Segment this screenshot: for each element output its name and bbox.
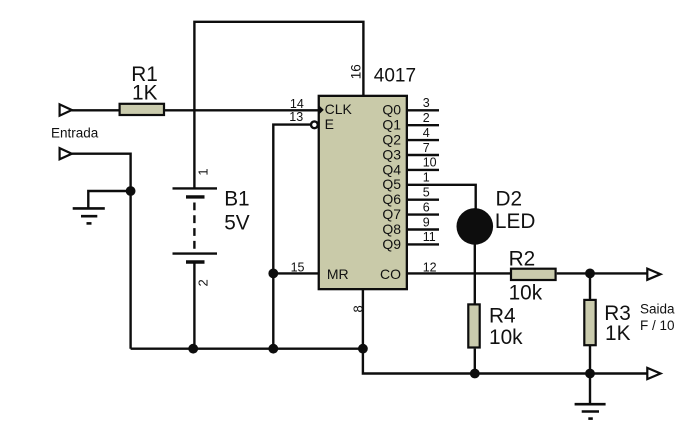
wire ground branch xyxy=(88,191,130,208)
svg-text:6: 6 xyxy=(423,200,430,214)
svg-text:13: 13 xyxy=(289,110,303,124)
pin Q2 stub xyxy=(382,126,439,148)
wire pin 8 to ground bus xyxy=(362,289,364,349)
resistor R4 xyxy=(468,304,479,347)
op IC U1 4017 body xyxy=(319,96,407,289)
resistor R2 xyxy=(511,269,556,280)
wire V+ rail from battery top to pin 16 xyxy=(194,22,363,189)
svg-text:2: 2 xyxy=(423,111,430,125)
node R4/bus junction xyxy=(470,369,480,379)
node MR junction xyxy=(268,269,278,279)
output connector J4 xyxy=(647,368,660,379)
pin Q1 stub xyxy=(382,111,439,133)
svg-text:MR: MR xyxy=(327,266,349,282)
svg-text:D2: D2 xyxy=(496,187,523,210)
svg-text:8: 8 xyxy=(350,305,365,312)
output connector J3 xyxy=(647,269,660,280)
svg-text:1K: 1K xyxy=(132,81,158,104)
ground (output) xyxy=(575,404,606,418)
node battery/bus junction xyxy=(188,344,198,354)
svg-text:14: 14 xyxy=(290,97,304,111)
svg-text:3: 3 xyxy=(423,96,430,110)
svg-text:Q7: Q7 xyxy=(382,206,401,222)
svg-text:1K: 1K xyxy=(605,322,631,345)
svg-text:7: 7 xyxy=(423,141,430,155)
svg-text:4017: 4017 xyxy=(374,65,416,86)
svg-text:Saida: Saida xyxy=(640,301,675,316)
svg-text:F / 10: F / 10 xyxy=(640,318,675,333)
resistor R3 xyxy=(584,300,595,345)
battery B1 xyxy=(173,188,218,262)
svg-text:Q5: Q5 xyxy=(382,176,401,192)
pin Q5 stub + wire to LED xyxy=(382,171,475,209)
svg-text:B1: B1 xyxy=(224,187,249,210)
wire ground bus right xyxy=(363,349,648,374)
svg-text:10: 10 xyxy=(423,156,437,170)
pin Q0 stub xyxy=(382,96,439,118)
svg-text:R2: R2 xyxy=(509,248,536,271)
svg-text:4: 4 xyxy=(423,126,430,140)
svg-text:R4: R4 xyxy=(489,305,516,328)
wire LED cathode to R4 xyxy=(474,244,476,304)
svg-text:16: 16 xyxy=(349,64,364,79)
wire R2 to output J3 xyxy=(557,272,648,274)
pin Q9 stub xyxy=(382,230,439,252)
input connector J1 (top) xyxy=(60,104,72,115)
ground (input) xyxy=(73,208,105,223)
svg-text:CO: CO xyxy=(380,266,401,282)
wire ground bus left xyxy=(131,348,363,350)
svg-text:Q4: Q4 xyxy=(382,161,401,177)
svg-text:9: 9 xyxy=(423,215,430,229)
wire R1 to CLK pin 14 xyxy=(165,109,318,111)
LED D2 xyxy=(457,208,494,245)
svg-text:11: 11 xyxy=(423,230,436,244)
svg-text:10k: 10k xyxy=(509,281,543,304)
wire J1 to R1 xyxy=(72,109,120,111)
wire J2 down to ground bus xyxy=(72,154,131,349)
pin Q4 stub xyxy=(382,156,439,178)
svg-text:Q8: Q8 xyxy=(382,221,401,237)
svg-text:LED: LED xyxy=(495,210,535,233)
pin Q8 stub xyxy=(382,215,439,237)
svg-text:CLK: CLK xyxy=(325,101,353,117)
svg-text:1: 1 xyxy=(195,168,210,175)
svg-text:Q2: Q2 xyxy=(382,132,401,148)
wire R3 bottom to ground bus xyxy=(589,346,591,374)
pin Q6 stub xyxy=(382,186,439,208)
svg-text:15: 15 xyxy=(291,261,305,275)
node R2/R3 junction xyxy=(585,269,595,279)
pin Q7 stub xyxy=(382,200,439,222)
svg-text:Q3: Q3 xyxy=(382,146,401,162)
node junction J2/ground xyxy=(126,186,136,196)
wire R3 top to CO net xyxy=(589,273,591,299)
node MR-net/bus junction xyxy=(268,344,278,354)
svg-text:10k: 10k xyxy=(489,326,523,349)
svg-text:E: E xyxy=(325,116,334,132)
svg-text:1: 1 xyxy=(423,171,430,185)
wire CO to R2 xyxy=(408,272,510,274)
svg-text:Q0: Q0 xyxy=(382,102,401,118)
pin Q3 stub xyxy=(382,141,439,163)
wire enable E pin 13 from MR net xyxy=(273,125,310,349)
svg-text:5V: 5V xyxy=(224,211,250,234)
node R3/bus junction xyxy=(585,369,595,379)
wire battery minus to ground bus xyxy=(193,262,195,349)
wire R3 ground stem xyxy=(589,374,591,404)
svg-text:Q9: Q9 xyxy=(382,236,401,252)
svg-text:5: 5 xyxy=(423,186,430,200)
svg-text:Q6: Q6 xyxy=(382,191,401,207)
inversion bubble E xyxy=(311,121,318,128)
svg-text:12: 12 xyxy=(423,260,437,274)
wire R4 to ground bus xyxy=(474,349,476,374)
svg-text:Entrada: Entrada xyxy=(51,125,99,140)
wire MR to net xyxy=(273,272,318,274)
node pin8/bus junction xyxy=(358,344,368,354)
svg-text:Q1: Q1 xyxy=(382,117,401,133)
resistor R1 xyxy=(120,104,164,115)
input connector J2 (bottom) xyxy=(60,148,72,159)
clock triangle CLK xyxy=(319,106,323,114)
svg-text:2: 2 xyxy=(195,279,210,286)
